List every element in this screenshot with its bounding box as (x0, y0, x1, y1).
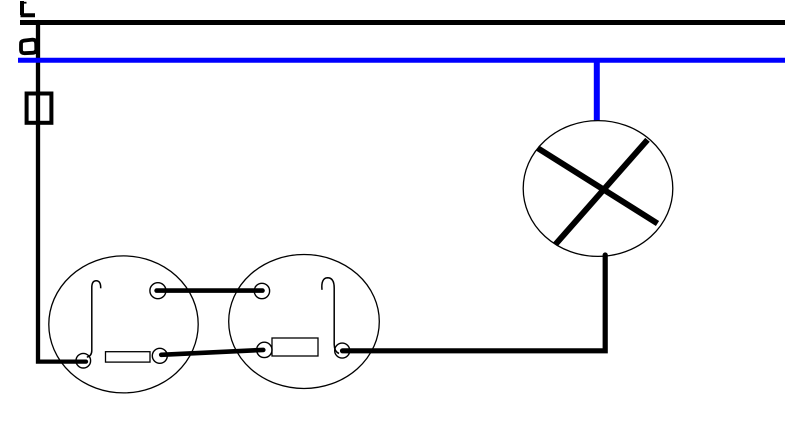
wire: blue drop to lamp (594, 60, 600, 121)
lamp E1 cross stroke 1 (538, 148, 658, 224)
switch S2 terminal (common, right) (335, 343, 350, 358)
switch S2 terminal (bottom left) (257, 342, 272, 357)
wire: traveller bottom between S1 and S2 (161, 350, 263, 355)
switch S2 contact rectangle (272, 338, 318, 356)
lamp E1 cross stroke 2 (556, 140, 648, 245)
switch S2 terminal (top left) (254, 283, 269, 298)
switch S1 terminal (top right) (150, 283, 166, 299)
label L (21, 1, 36, 15)
label N (hand-drawn bowl) (21, 40, 36, 54)
wire: traveller top between S1 and S2 (157, 288, 263, 293)
switch S1 terminal (bottom right) (152, 348, 167, 363)
L rail (top black line) (20, 20, 785, 25)
N rail (blue line) (18, 58, 785, 63)
switch S1 body (49, 256, 198, 393)
fuse F1 (27, 94, 52, 123)
wire: left vertical drop from L rail to switch 1 (38, 22, 86, 362)
wire: lamp to switch 2 (return) (343, 255, 606, 351)
switch S2 lever hook (322, 278, 339, 354)
switch S1 contact rectangle (106, 352, 151, 362)
switch S2 body (229, 255, 380, 389)
switch S1 lever hook (87, 281, 101, 358)
switch S1 terminal (common, left) (76, 353, 91, 368)
lamp E1 body (523, 121, 673, 257)
